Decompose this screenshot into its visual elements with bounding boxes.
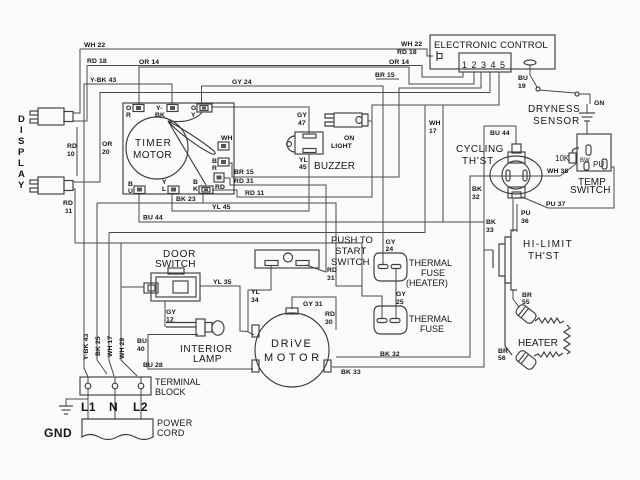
svg-text:A: A bbox=[18, 169, 25, 180]
svg-text:YL 35: YL 35 bbox=[213, 279, 232, 286]
svg-text:L1: L1 bbox=[81, 400, 96, 414]
svg-text:RD: RD bbox=[215, 184, 225, 191]
svg-text:THERMAL: THERMAL bbox=[409, 258, 452, 268]
svg-text:BK 25: BK 25 bbox=[95, 336, 102, 356]
svg-text:L: L bbox=[18, 158, 24, 169]
svg-text:S: S bbox=[18, 136, 24, 147]
svg-text:R: R bbox=[126, 112, 131, 119]
svg-text:HEATER: HEATER bbox=[518, 338, 558, 349]
svg-text:GND: GND bbox=[44, 426, 72, 440]
svg-text:Y: Y bbox=[162, 179, 167, 186]
svg-text:RD 18: RD 18 bbox=[87, 58, 107, 65]
svg-text:YL: YL bbox=[299, 157, 308, 164]
svg-text:25: 25 bbox=[396, 299, 404, 306]
svg-text:TERMINAL: TERMINAL bbox=[155, 377, 201, 387]
svg-text:DRiVE: DRiVE bbox=[271, 338, 313, 350]
svg-text:GY: GY bbox=[166, 309, 176, 316]
svg-text:BU: BU bbox=[518, 75, 528, 82]
svg-text:L2: L2 bbox=[133, 400, 148, 414]
svg-text:OR: OR bbox=[102, 141, 112, 148]
svg-text:40: 40 bbox=[137, 346, 145, 353]
svg-text:MOTOR: MOTOR bbox=[133, 150, 172, 161]
svg-text:WH 17: WH 17 bbox=[107, 336, 114, 357]
svg-text:RD: RD bbox=[327, 267, 337, 274]
svg-text:CORD: CORD bbox=[157, 428, 185, 438]
svg-text:HI-LIMIT: HI-LIMIT bbox=[523, 239, 573, 250]
svg-text:BK: BK bbox=[486, 219, 496, 226]
svg-text:47: 47 bbox=[298, 120, 306, 127]
svg-text:WH: WH bbox=[429, 120, 441, 127]
svg-text:33: 33 bbox=[486, 227, 494, 234]
svg-text:GY: GY bbox=[386, 239, 396, 246]
svg-text:34: 34 bbox=[251, 297, 259, 304]
svg-text:R: R bbox=[212, 165, 217, 172]
svg-text:LAMP: LAMP bbox=[193, 354, 222, 365]
svg-text:36: 36 bbox=[521, 218, 529, 225]
svg-text:N: N bbox=[109, 400, 118, 414]
svg-text:MOTOR: MOTOR bbox=[264, 352, 323, 364]
svg-text:RD 18: RD 18 bbox=[397, 49, 417, 56]
svg-text:10K: 10K bbox=[555, 154, 570, 163]
svg-text:D: D bbox=[18, 114, 25, 125]
svg-text:24: 24 bbox=[386, 246, 394, 253]
svg-text:BU: BU bbox=[137, 338, 147, 345]
svg-text:RD: RD bbox=[63, 200, 73, 207]
svg-text:BU 44: BU 44 bbox=[490, 130, 510, 137]
svg-text:LIGHT: LIGHT bbox=[331, 143, 353, 150]
svg-text:TH'ST: TH'ST bbox=[528, 251, 560, 262]
svg-text:WH: WH bbox=[221, 135, 233, 142]
svg-text:CYCLING: CYCLING bbox=[456, 144, 504, 155]
svg-text:TIMER: TIMER bbox=[135, 138, 172, 149]
svg-text:GY 24: GY 24 bbox=[232, 79, 252, 86]
svg-text:BU 44: BU 44 bbox=[143, 215, 163, 222]
svg-text:Y-BK 43: Y-BK 43 bbox=[83, 333, 90, 360]
svg-text:RD: RD bbox=[325, 311, 335, 318]
svg-text:RD: RD bbox=[67, 143, 77, 150]
svg-text:PU: PU bbox=[521, 210, 531, 217]
svg-text:B: B bbox=[193, 179, 198, 186]
svg-text:O: O bbox=[126, 105, 131, 112]
svg-text:PUSH TO: PUSH TO bbox=[331, 235, 373, 246]
svg-text:(HEATER): (HEATER) bbox=[406, 278, 448, 288]
svg-text:THERMAL: THERMAL bbox=[409, 314, 452, 324]
svg-text:SENSOR: SENSOR bbox=[533, 116, 580, 127]
svg-text:BK 23: BK 23 bbox=[176, 196, 196, 203]
svg-text:56: 56 bbox=[498, 355, 506, 362]
svg-text:31: 31 bbox=[327, 275, 335, 282]
svg-text:10: 10 bbox=[67, 151, 75, 158]
svg-text:U: U bbox=[128, 188, 133, 195]
svg-text:12: 12 bbox=[166, 317, 174, 324]
svg-text:17: 17 bbox=[429, 128, 437, 135]
svg-text:BK 32: BK 32 bbox=[380, 351, 400, 358]
svg-text:4: 4 bbox=[491, 60, 496, 70]
svg-text:BR 15: BR 15 bbox=[234, 169, 254, 176]
svg-text:RD 31: RD 31 bbox=[234, 178, 254, 185]
svg-text:BR 15: BR 15 bbox=[375, 72, 395, 79]
svg-text:BK: BK bbox=[472, 186, 482, 193]
svg-text:YL: YL bbox=[251, 289, 260, 296]
svg-text:WH 38: WH 38 bbox=[547, 168, 568, 175]
svg-text:30: 30 bbox=[325, 319, 333, 326]
svg-text:YL 45: YL 45 bbox=[212, 204, 231, 211]
svg-text:GY: GY bbox=[297, 112, 307, 119]
svg-text:BR: BR bbox=[498, 348, 508, 355]
svg-text:B: B bbox=[212, 158, 217, 165]
svg-text:GY 31: GY 31 bbox=[303, 301, 323, 308]
svg-text:POWER: POWER bbox=[157, 418, 193, 428]
svg-text:OR 14: OR 14 bbox=[139, 59, 159, 66]
svg-text:FUSE: FUSE bbox=[420, 324, 444, 334]
svg-text:45: 45 bbox=[299, 164, 307, 171]
svg-text:ON: ON bbox=[344, 135, 354, 142]
svg-text:BLOCK: BLOCK bbox=[155, 387, 186, 397]
svg-text:START: START bbox=[335, 246, 367, 257]
svg-text:BU 28: BU 28 bbox=[143, 362, 163, 369]
svg-text:1: 1 bbox=[462, 60, 467, 70]
svg-text:WH 22: WH 22 bbox=[84, 42, 105, 49]
svg-text:RD 11: RD 11 bbox=[245, 190, 265, 197]
svg-text:B: B bbox=[128, 181, 133, 188]
svg-text:GY: GY bbox=[396, 291, 406, 298]
svg-text:2: 2 bbox=[472, 60, 477, 70]
svg-text:L: L bbox=[162, 186, 166, 193]
svg-text:Y: Y bbox=[18, 180, 25, 191]
svg-text:3: 3 bbox=[481, 60, 486, 70]
svg-text:Y: Y bbox=[191, 112, 196, 119]
svg-text:5: 5 bbox=[500, 60, 505, 70]
svg-text:I: I bbox=[20, 125, 23, 136]
svg-text:PU: PU bbox=[593, 160, 604, 169]
svg-text:19: 19 bbox=[518, 83, 526, 90]
svg-text:TH'ST: TH'ST bbox=[462, 156, 494, 167]
svg-text:Y-BK 43: Y-BK 43 bbox=[90, 77, 117, 84]
svg-text:P: P bbox=[18, 147, 25, 158]
svg-text:20: 20 bbox=[102, 149, 110, 156]
svg-text:32: 32 bbox=[472, 194, 480, 201]
svg-text:GN: GN bbox=[594, 100, 604, 107]
svg-text:OR 14: OR 14 bbox=[389, 59, 409, 66]
svg-text:SWITCH: SWITCH bbox=[155, 259, 196, 270]
svg-text:55: 55 bbox=[522, 299, 530, 306]
svg-text:11: 11 bbox=[65, 208, 73, 215]
svg-text:BK: BK bbox=[155, 112, 165, 119]
svg-text:FUSE: FUSE bbox=[421, 268, 445, 278]
svg-text:DRYNESS: DRYNESS bbox=[528, 104, 580, 115]
svg-text:WH 22: WH 22 bbox=[401, 41, 422, 48]
svg-text:ELECTRONIC CONTROL: ELECTRONIC CONTROL bbox=[434, 40, 548, 51]
svg-text:BW: BW bbox=[580, 158, 590, 164]
svg-text:WH 29: WH 29 bbox=[119, 338, 126, 359]
svg-text:BR: BR bbox=[522, 292, 532, 299]
svg-text:BUZZER: BUZZER bbox=[314, 161, 355, 172]
svg-text:K: K bbox=[193, 186, 198, 193]
svg-text:SWITCH: SWITCH bbox=[570, 185, 611, 196]
svg-text:G: G bbox=[191, 105, 196, 112]
svg-text:PU 37: PU 37 bbox=[546, 201, 566, 208]
svg-text:Y-: Y- bbox=[156, 105, 163, 112]
svg-text:BK 33: BK 33 bbox=[341, 369, 361, 376]
